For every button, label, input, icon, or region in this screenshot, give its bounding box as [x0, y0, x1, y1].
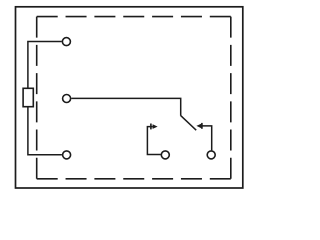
dashed enclosure border left side [36, 17, 38, 179]
NO contact arrow (filled triangle pointing right) [153, 124, 158, 129]
terminal circle: NC terminal (bottom right) [207, 151, 215, 159]
wire: NC contact to terminal [202, 126, 212, 150]
dashed enclosure border right side [230, 17, 232, 179]
wire: coil top lead (vertical) [28, 42, 62, 89]
wire: coil bottom lead (vertical then right) [28, 107, 62, 155]
wire: NO contact to terminal [147, 127, 160, 155]
terminal circle: common terminal (middle left) [63, 95, 71, 103]
terminal circle: coil terminal B (bottom left) [63, 151, 71, 159]
NC contact arrow (filled triangle pointing left at blade) [196, 124, 201, 129]
NC contact arrow crossbar [201, 123, 203, 129]
dashed enclosure border bottom side [37, 178, 231, 180]
outer solid border frame [16, 7, 243, 188]
terminal circle: coil terminal A (top left) [62, 38, 70, 46]
coil K1 (rectangle) [23, 88, 33, 106]
dashed enclosure border (relay case) top side [37, 16, 231, 18]
wire: common wire to switch pivot [71, 98, 180, 115]
NO contact arrow crossbar [150, 124, 152, 130]
switch blade (movable armature) [181, 116, 197, 131]
terminal circle: NO terminal (bottom middle) [161, 151, 169, 159]
